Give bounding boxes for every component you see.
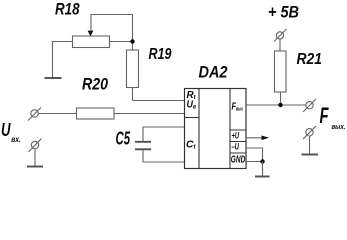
ground (R18) — [45, 77, 62, 79]
wire GND to ground — [262, 162, 264, 177]
wire C5 bottom to chip — [143, 150, 185, 162]
ground (output) — [302, 154, 319, 156]
wire R19 to pin Rt — [133, 100, 185, 102]
wire -U — [246, 148, 263, 162]
terminal output 2 — [303, 126, 316, 139]
svg-text:R20: R20 — [82, 75, 108, 94]
wire R20 to pin Uв — [114, 113, 185, 115]
separator right column -U/GND — [230, 152, 246, 154]
separator left column below Uв — [185, 117, 200, 119]
ground (GND net) — [255, 176, 270, 178]
svg-text:вх.: вх. — [11, 135, 20, 144]
wire input 2 to ground — [34, 149, 36, 166]
resistor R19 — [127, 44, 139, 101]
terminal +5V — [274, 29, 287, 42]
svg-text:R19: R19 — [149, 46, 172, 63]
wire Fout — [246, 104, 306, 106]
separator right column +U/-U — [230, 141, 246, 143]
svg-text:+U: +U — [232, 131, 240, 141]
capacitor C5 — [135, 142, 151, 150]
IC right pin column border — [229, 89, 231, 169]
wire +U with arrow — [246, 137, 263, 139]
terminal input 2 — [29, 139, 42, 153]
svg-text:вых.: вых. — [332, 122, 346, 131]
resistor R18 — [73, 31, 110, 48]
svg-text:F: F — [320, 103, 329, 128]
svg-text:R18: R18 — [55, 1, 80, 19]
terminal input 1 — [28, 108, 41, 121]
svg-text:GND: GND — [231, 155, 246, 166]
IC DA2 body — [185, 89, 247, 169]
svg-text:+ 5В: + 5В — [268, 4, 299, 22]
wire C5 top to pin Ct — [143, 127, 185, 141]
svg-text:DA2: DA2 — [199, 64, 228, 82]
separator right column below Fout — [230, 129, 246, 131]
svg-text:U: U — [1, 119, 11, 140]
svg-text:–U: –U — [232, 142, 240, 152]
wire R18 right terminal — [110, 41, 133, 43]
ground (input) — [27, 166, 43, 168]
svg-text:R21: R21 — [297, 51, 323, 68]
wire input to R20 — [38, 113, 76, 115]
wire wiper loop — [91, 15, 133, 40]
node junction R18/R19 — [130, 39, 134, 43]
wire output 2 to ground — [309, 136, 311, 154]
resistor R21 — [275, 39, 287, 103]
node GND junction — [260, 159, 264, 163]
wire GND — [246, 161, 263, 163]
IC left pin column border — [198, 89, 200, 169]
terminal output 1 — [303, 99, 316, 112]
node Fout/R21 — [278, 103, 282, 107]
svg-text:С5: С5 — [116, 129, 131, 149]
wire R18 left terminal — [53, 42, 73, 78]
resistor R20 — [77, 108, 115, 119]
